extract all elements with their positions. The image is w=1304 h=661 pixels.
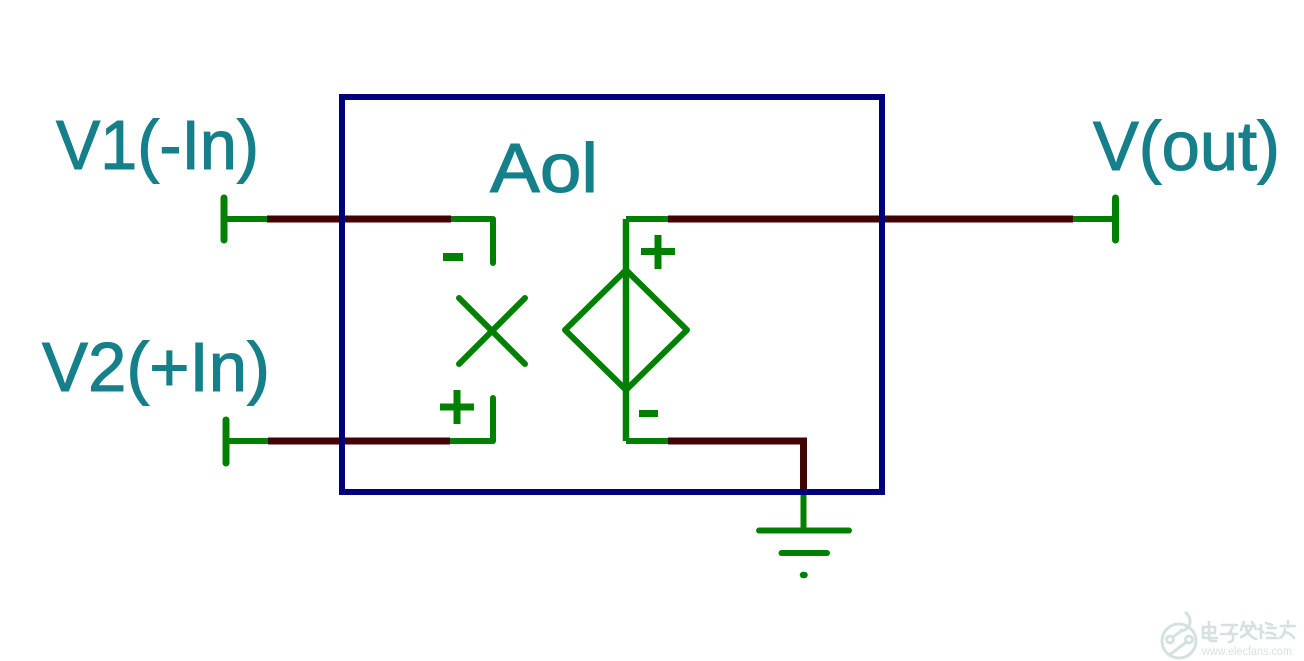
wire V1 green stub [224,216,267,222]
wire V1 net segment [267,216,451,223]
pin bracket non-inverting input [490,398,496,441]
polarity plus (source top) [641,235,675,269]
svg-text:www.elecfans.com: www.elecfans.com [1201,646,1292,658]
wire Vout green stub from source [626,216,668,222]
watermark text 电子发烧友 (drawn strokes) [1203,621,1295,642]
svg-text:V1(-In): V1(-In) [56,106,259,184]
watermark logo circle [1162,612,1196,658]
wire source bottom net segment [668,441,804,491]
dependent source G1 diamond [565,270,687,390]
terminal V2(+In) [223,420,230,463]
terminal V(out) [1112,198,1119,240]
svg-text:V2(+In): V2(+In) [42,328,270,406]
wire V1 pin segment [451,216,493,222]
svg-text:V(out): V(out) [1093,107,1280,185]
wire V2 pin segment [450,438,493,444]
svg-text:Aol: Aol [490,129,598,207]
polarity minus (inverting input) [443,253,463,261]
wire Vout terminal stub [1073,216,1116,222]
polarity minus (source bottom) [639,410,658,417]
op-amp macromodel box U1 [342,97,882,492]
terminal V1(-In) [221,198,228,240]
wire V2 net segment [268,438,450,445]
multiplier cross X1 [459,298,525,364]
wire ground riser [801,494,807,531]
dependent source G1 vertical stem [623,219,630,441]
wire source bottom green stub [626,438,668,444]
wire V2 green stub [226,438,268,444]
wire Vout net segment [668,216,1073,223]
pin bracket inverting input [490,219,496,263]
polarity plus (non-inverting input) [440,390,474,424]
ground symbol 0 [759,531,849,576]
